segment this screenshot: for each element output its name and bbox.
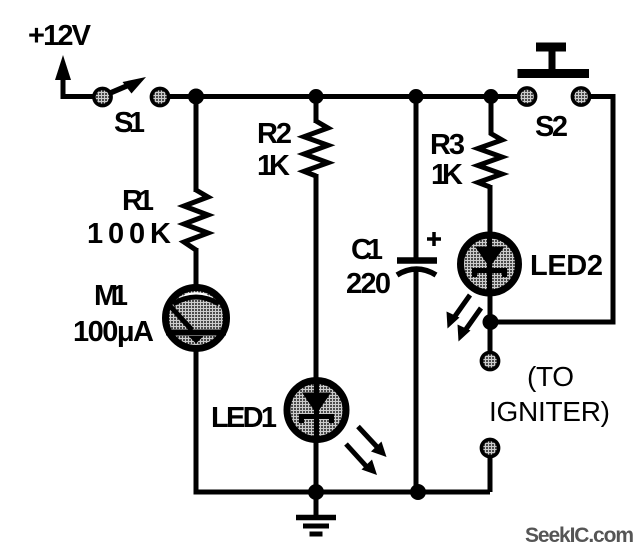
LED1 emission arrows	[346, 427, 387, 476]
node A (S1/R1 junction)	[188, 89, 204, 105]
node D (R3/S2 junction)	[484, 89, 499, 104]
LED2 emission arrows	[447, 295, 482, 342]
+12V supply arrow	[55, 55, 71, 97]
svg-text:1K: 1K	[257, 150, 290, 182]
node E (LED2 cathode junction)	[483, 314, 499, 330]
meter M1	[166, 288, 227, 349]
wire R2 to LED1	[314, 174, 319, 385]
wire M1 to bottom rail	[194, 348, 199, 492]
svg-text:SeekIC.com: SeekIC.com	[525, 524, 634, 547]
svg-text:S1: S1	[114, 107, 145, 139]
svg-text:100K: 100K	[87, 218, 171, 250]
wire R3 to LED2	[488, 185, 493, 240]
wire supply corner to S1	[63, 94, 94, 97]
LED1	[287, 380, 346, 440]
switch S1	[94, 77, 169, 106]
svg-text:+12V: +12V	[28, 20, 92, 52]
wire node E to igniter terminal 1	[488, 322, 493, 352]
capacitor C1	[397, 232, 441, 275]
wire bottom rail	[196, 489, 490, 492]
svg-text:S2: S2	[535, 111, 568, 143]
wire node C to C1	[414, 97, 419, 261]
wire top rail	[170, 94, 517, 99]
svg-text:1K: 1K	[431, 159, 463, 191]
svg-text:100μA: 100μA	[73, 316, 154, 348]
svg-text:(TO: (TO	[527, 361, 574, 392]
svg-text:LED1: LED1	[211, 402, 277, 434]
wire top rail right of S2	[591, 94, 616, 99]
node F (LED1/ground junction)	[308, 484, 324, 500]
svg-text:R3: R3	[430, 129, 465, 161]
wire node B to R2	[314, 97, 319, 124]
svg-text:IGNITER): IGNITER)	[489, 396, 610, 427]
wire node D to R3	[489, 97, 494, 136]
wire C1 to bottom rail	[414, 271, 419, 492]
node C (C1 junction)	[409, 89, 424, 104]
igniter terminal 2	[481, 439, 498, 456]
svg-text:R2: R2	[257, 118, 292, 150]
wire node A to R1	[194, 97, 199, 193]
svg-text:M1: M1	[94, 280, 128, 312]
wire R1 to M1	[194, 248, 199, 290]
resistor R1	[184, 190, 208, 250]
svg-text:R1: R1	[122, 185, 154, 217]
igniter terminal 1	[481, 352, 498, 369]
svg-text:C1: C1	[351, 234, 383, 266]
resistor R2	[304, 121, 328, 176]
wire igniter terminal 2 to bottom rail	[488, 456, 493, 492]
LED2	[461, 234, 519, 294]
switch S2	[518, 47, 590, 105]
wire LED2 to node E	[488, 292, 493, 326]
resistor R3	[478, 133, 502, 187]
wire node E right and up right side	[491, 97, 614, 323]
wire LED1 to bottom rail	[314, 438, 319, 492]
node B (R2 junction)	[309, 89, 324, 104]
svg-text:LED2: LED2	[530, 250, 603, 282]
node G (C1 bottom junction)	[410, 484, 426, 500]
svg-text:220: 220	[346, 268, 391, 300]
ground	[296, 492, 336, 534]
